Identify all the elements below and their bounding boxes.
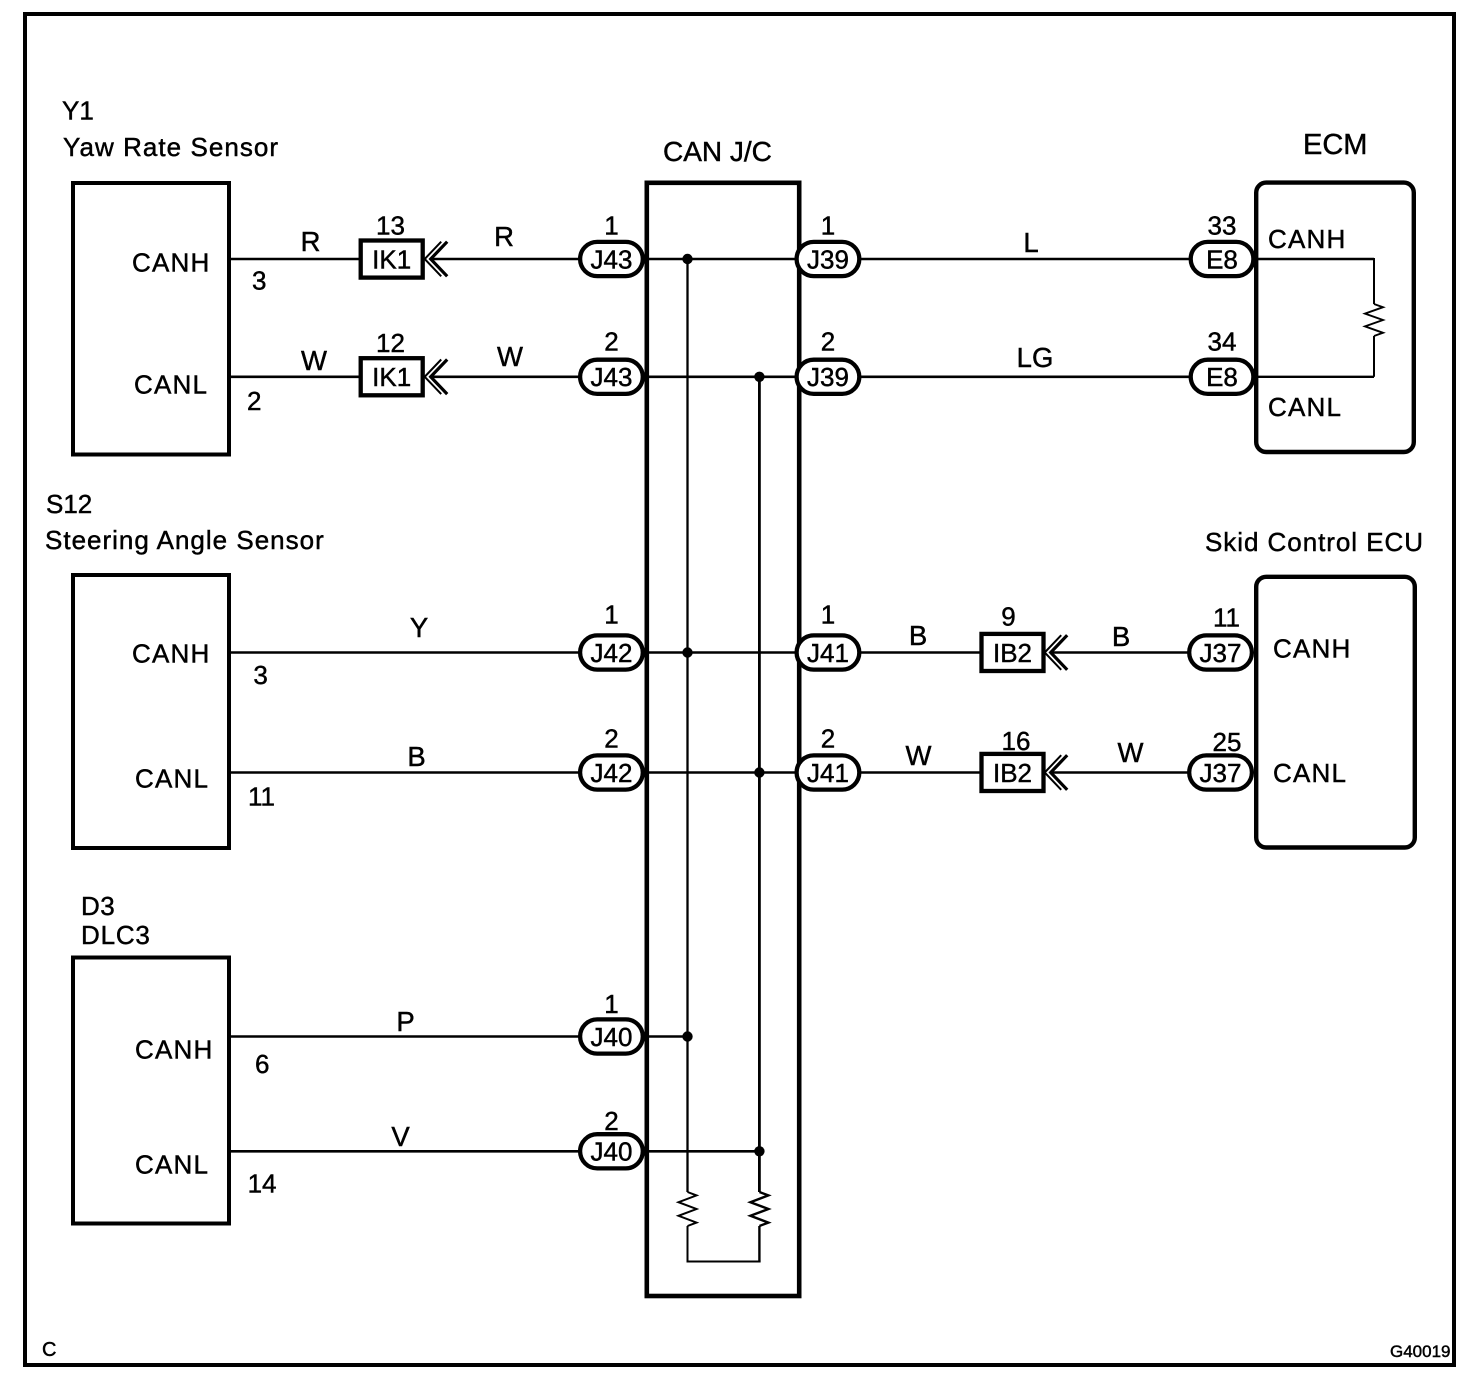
node junction CANH bus row 3 xyxy=(682,647,692,657)
svg-text:CANH: CANH xyxy=(1273,634,1351,664)
svg-text:CANL: CANL xyxy=(135,1150,209,1180)
svg-text:R: R xyxy=(494,221,514,252)
wire J40 to CANL bus row 6 xyxy=(649,1150,761,1153)
svg-text:1: 1 xyxy=(604,210,618,240)
resistor CAN J/C CANH terminator xyxy=(679,1192,697,1226)
resistor ECM terminating xyxy=(1365,304,1383,336)
connector J43 pin 1 xyxy=(580,210,643,276)
svg-text:D3: D3 xyxy=(81,891,115,921)
svg-text:16: 16 xyxy=(1002,726,1031,756)
svg-text:CANH: CANH xyxy=(132,248,210,278)
wire CANL bus vertical inside CAN J/C xyxy=(758,377,761,1192)
svg-text:J43: J43 xyxy=(591,244,633,274)
wire DLC3 CANH pin 6 to J40 pin 1, colour P xyxy=(231,1006,580,1079)
wire CANL through CAN J/C row 4 xyxy=(649,771,797,774)
svg-text:Y1: Y1 xyxy=(62,96,94,126)
wire DLC3 CANL pin 14 to J40 pin 2, colour V xyxy=(231,1121,580,1199)
svg-text:DLC3: DLC3 xyxy=(81,920,151,950)
connector J37 pin 25 xyxy=(1189,727,1252,790)
svg-text:CANL: CANL xyxy=(134,369,208,399)
wire S12 CANH pin 3 to J42 pin 1, colour Y xyxy=(231,612,580,690)
svg-text:1: 1 xyxy=(604,600,618,630)
svg-text:J40: J40 xyxy=(591,1137,633,1167)
svg-text:33: 33 xyxy=(1208,210,1237,240)
svg-text:11: 11 xyxy=(1213,603,1240,633)
svg-text:W: W xyxy=(906,740,932,771)
wire Y1 CANH pin 3 to connector IK1, colour R xyxy=(231,226,360,295)
svg-text:E8: E8 xyxy=(1206,244,1238,274)
connector IK1 pin 12 xyxy=(361,328,423,396)
wire J40 to CANH bus row 5 xyxy=(649,1035,688,1038)
svg-text:CAN J/C: CAN J/C xyxy=(663,136,772,167)
svg-text:9: 9 xyxy=(1001,602,1015,632)
node junction CANH bus row 5 xyxy=(682,1031,692,1041)
svg-text:W: W xyxy=(1118,737,1144,768)
wire J41 to IB2, colour B xyxy=(861,620,982,653)
svg-text:P: P xyxy=(396,1006,414,1037)
wire CANH bus vertical inside CAN J/C xyxy=(686,259,688,1192)
connector arrow after IK1 row 1 xyxy=(425,242,448,277)
connector E8 pin 33 xyxy=(1191,210,1254,276)
wire Y1 CANL pin 2 to connector IK1, colour W xyxy=(231,345,360,416)
svg-text:Yaw Rate Sensor: Yaw Rate Sensor xyxy=(63,132,279,162)
connector E8 pin 34 xyxy=(1191,327,1254,394)
svg-text:LG: LG xyxy=(1017,342,1054,373)
resistor CAN J/C CANL terminator xyxy=(750,1192,768,1226)
component Y1 Yaw Rate Sensor box xyxy=(62,96,279,455)
svg-text:2: 2 xyxy=(247,386,261,416)
svg-text:2: 2 xyxy=(604,724,618,754)
svg-text:J41: J41 xyxy=(807,758,849,788)
svg-text:V: V xyxy=(391,1121,410,1152)
wire J41 to IB2, colour W xyxy=(861,740,982,773)
wire CANH through CAN J/C row 1 xyxy=(649,258,797,261)
svg-text:J42: J42 xyxy=(591,638,633,668)
svg-text:3: 3 xyxy=(252,265,266,295)
connector J39 pin 2 xyxy=(797,327,860,394)
svg-text:J43: J43 xyxy=(591,362,633,392)
svg-text:IK1: IK1 xyxy=(372,244,411,274)
wire ECM internal CANH lead xyxy=(1256,258,1374,304)
wire IK1 to J43 pin 2, colour W xyxy=(431,341,580,377)
svg-text:IB2: IB2 xyxy=(993,638,1032,668)
node junction CANL bus row 4 xyxy=(754,767,764,777)
connector J39 pin 1 xyxy=(797,210,860,276)
connector J41 pin 1 xyxy=(797,600,860,670)
svg-text:W: W xyxy=(497,341,523,372)
svg-text:J40: J40 xyxy=(591,1022,633,1052)
svg-text:CANH: CANH xyxy=(132,639,210,669)
component ECM box xyxy=(1256,129,1414,452)
svg-text:12: 12 xyxy=(376,328,405,358)
connector J42 pin 2 xyxy=(580,724,643,790)
connector J37 pin 11 xyxy=(1189,603,1252,670)
svg-text:CANL: CANL xyxy=(1268,392,1342,422)
svg-text:CANL: CANL xyxy=(135,764,209,794)
svg-text:CANL: CANL xyxy=(1273,758,1347,788)
connector arrow after IB2 row 4 xyxy=(1045,755,1068,790)
wire CANL resistor tail xyxy=(758,1226,760,1262)
connector arrow after IK1 row 2 xyxy=(425,360,448,395)
wire bottom connector joining terminators xyxy=(687,1261,761,1263)
svg-text:Y: Y xyxy=(410,612,428,643)
connector IB2 pin 9 xyxy=(982,602,1044,672)
svg-text:11: 11 xyxy=(248,781,275,811)
svg-text:J37: J37 xyxy=(1200,638,1242,668)
svg-text:J42: J42 xyxy=(591,758,633,788)
svg-text:1: 1 xyxy=(604,989,618,1019)
svg-text:B: B xyxy=(407,741,425,772)
component D3 DLC3 box xyxy=(73,891,229,1224)
svg-text:CANH: CANH xyxy=(1268,224,1346,254)
svg-text:G40019: G40019 xyxy=(1390,1342,1451,1361)
svg-text:J37: J37 xyxy=(1200,758,1242,788)
svg-text:6: 6 xyxy=(255,1049,269,1079)
svg-text:E8: E8 xyxy=(1206,362,1238,392)
connector J41 pin 2 xyxy=(797,724,860,790)
wire IB2 to J37 pin 25, colour W xyxy=(1051,737,1190,773)
wire ECM internal CANL lead xyxy=(1256,336,1374,377)
svg-text:2: 2 xyxy=(604,1106,618,1136)
wire S12 CANL pin 11 to J42 pin 2, colour B xyxy=(231,741,580,811)
svg-text:3: 3 xyxy=(253,660,267,690)
connector IK1 pin 13 xyxy=(361,210,423,277)
connector arrow after IB2 row 3 xyxy=(1045,635,1068,670)
svg-text:J41: J41 xyxy=(807,638,849,668)
component S12 Steering Angle Sensor box xyxy=(45,489,325,848)
svg-text:14: 14 xyxy=(248,1169,277,1199)
wire CANL through CAN J/C row 2 xyxy=(649,375,797,378)
svg-text:R: R xyxy=(301,226,321,257)
svg-text:J39: J39 xyxy=(807,244,849,274)
svg-text:2: 2 xyxy=(604,327,618,357)
svg-text:Skid Control ECU: Skid Control ECU xyxy=(1205,527,1424,557)
svg-text:B: B xyxy=(909,620,927,651)
svg-text:L: L xyxy=(1023,227,1038,258)
svg-text:Steering Angle Sensor: Steering Angle Sensor xyxy=(45,525,325,555)
svg-text:IB2: IB2 xyxy=(993,758,1032,788)
wire IK1 to J43 pin 1, colour R xyxy=(431,221,580,259)
svg-text:34: 34 xyxy=(1208,327,1237,357)
svg-text:S12: S12 xyxy=(46,489,92,519)
node junction CANL bus row 6 xyxy=(754,1146,764,1156)
svg-text:1: 1 xyxy=(821,210,835,240)
svg-text:J39: J39 xyxy=(807,362,849,392)
connector J40 pin 2 xyxy=(580,1106,643,1168)
svg-text:2: 2 xyxy=(821,327,835,357)
connector J40 pin 1 xyxy=(580,989,643,1054)
svg-text:2: 2 xyxy=(821,724,835,754)
svg-text:B: B xyxy=(1112,621,1130,652)
wire IB2 to J37 pin 11, colour B xyxy=(1051,621,1190,653)
svg-text:CANH: CANH xyxy=(135,1035,213,1065)
wire J39 to ECM E8 pin 33, colour L xyxy=(861,227,1190,259)
svg-text:IK1: IK1 xyxy=(372,362,411,392)
wire CANH resistor tail xyxy=(687,1226,689,1262)
svg-text:1: 1 xyxy=(821,600,835,630)
wire J39 to ECM E8 pin 34, colour LG xyxy=(861,342,1190,377)
svg-text:13: 13 xyxy=(376,210,405,240)
connector IB2 pin 16 xyxy=(982,726,1044,791)
connector J42 pin 1 xyxy=(580,600,643,670)
connector J43 pin 2 xyxy=(580,327,643,394)
svg-text:ECM: ECM xyxy=(1303,129,1367,161)
svg-text:25: 25 xyxy=(1213,727,1242,757)
svg-text:W: W xyxy=(301,345,327,376)
wire CANH through CAN J/C row 3 xyxy=(649,651,797,654)
component Skid Control ECU box xyxy=(1205,527,1424,848)
component CAN J/C junction connector box xyxy=(647,136,799,1296)
node junction CANL bus row 2 xyxy=(754,372,764,382)
node junction CANH bus row 1 xyxy=(682,254,692,264)
svg-text:C: C xyxy=(42,1339,56,1361)
